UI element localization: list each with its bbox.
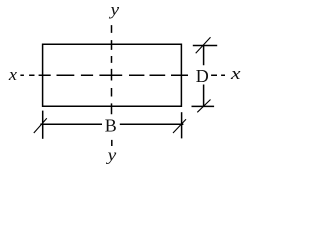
dimension D line — [203, 46, 205, 107]
centerline x-x horizontal dashes — [20, 74, 225, 76]
dimension D extension line bottom — [192, 105, 215, 107]
svg-text:B: B — [105, 115, 117, 135]
dimension B tick right — [173, 119, 186, 133]
dimension D tick top — [196, 37, 211, 53]
svg-text:y: y — [108, 0, 119, 19]
dimension B extension line left — [42, 111, 44, 139]
svg-text:y: y — [105, 146, 116, 165]
dimension D extension line top — [193, 45, 217, 47]
svg-text:x: x — [230, 64, 241, 83]
centerline y-y vertical dashes — [111, 25, 113, 146]
rectangle section outline — [43, 44, 182, 106]
svg-text:D: D — [196, 66, 209, 86]
dimension D tick bottom — [197, 100, 210, 113]
dimension B tick left — [34, 118, 47, 133]
svg-text:x: x — [8, 65, 18, 84]
dimension B extension line right — [181, 112, 183, 138]
dimension B line — [40, 123, 183, 125]
